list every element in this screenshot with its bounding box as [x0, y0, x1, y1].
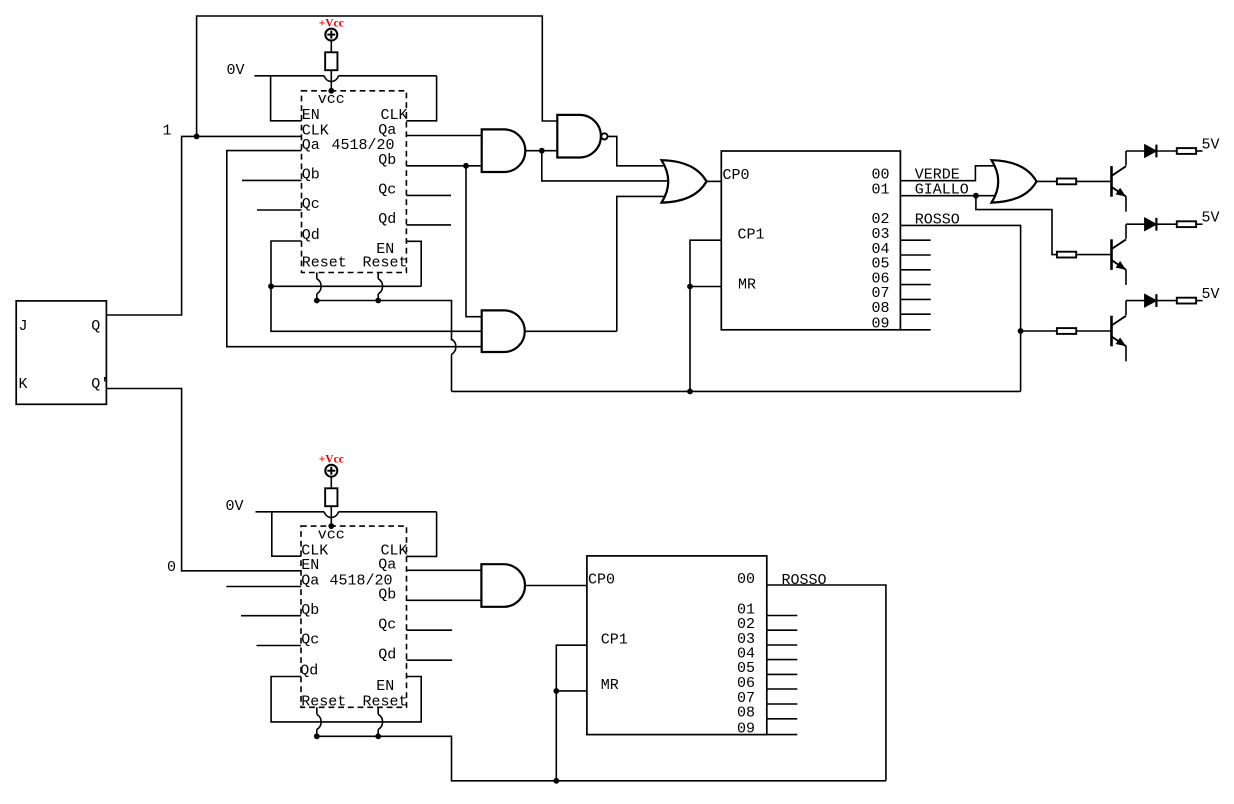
pin label 06 of U3 — [872, 270, 890, 287]
wire U2.Qa right to AND U6 — [406, 135, 481, 137]
pin label Qa right of U2 — [378, 122, 396, 139]
pin label Qb left of U4 — [301, 602, 319, 619]
pin label Reset Reset of U2 — [302, 255, 408, 272]
junction dot U2.Qb net — [463, 163, 469, 169]
net label 5V Q1 — [1202, 137, 1220, 154]
svg-text:CP0: CP0 — [723, 167, 750, 184]
counter U2 4518/20 dashed box — [302, 91, 407, 273]
stub U2.Qb left — [242, 179, 302, 181]
pin label 09 of U3 — [872, 316, 890, 333]
pin label 07 of U3 — [872, 285, 890, 302]
wire U4.Qb right to AND U11 — [407, 599, 482, 601]
svg-text:Qd: Qd — [300, 663, 318, 680]
wire U10 output to R2 — [1037, 180, 1057, 182]
junction dot Reset1 U2 — [314, 298, 320, 304]
resistor R2 base — [1057, 179, 1076, 185]
wire CP1 and MR of U3 — [690, 240, 721, 391]
pin label EN left of U4 — [301, 557, 319, 574]
svg-text:Q: Q — [91, 318, 100, 335]
svg-text:Reset: Reset — [363, 694, 408, 711]
wire U1.Q to node 1 and CLK of U2 — [106, 136, 301, 315]
pin label 08 of U5 — [737, 705, 755, 722]
svg-text:08: 08 — [872, 300, 890, 317]
junction dot MR rail — [687, 389, 693, 395]
svg-text:ROSSO: ROSSO — [782, 572, 827, 589]
svg-text:Qb: Qb — [378, 152, 396, 169]
pin label Qd left of U2 — [302, 227, 320, 244]
pin label 08 of U3 — [872, 300, 890, 317]
pin label vcc of U2 — [318, 91, 345, 108]
stub output 05 of U5 — [767, 673, 798, 675]
pin label 00 of U5 — [737, 571, 755, 588]
stub output 04 of U5 — [767, 659, 798, 661]
label 0V lower — [226, 498, 244, 515]
pin label Qb left of U2 — [302, 167, 320, 184]
wire D3 to R7 — [1156, 300, 1176, 302]
flip-flop U1 JK box — [16, 301, 106, 404]
power +Vcc symbol lower — [319, 454, 344, 477]
net label 1 — [162, 123, 171, 140]
stub output 08 of U3 — [900, 313, 930, 315]
svg-text:Qa: Qa — [301, 573, 319, 590]
wire 0V rail upper with hop — [254, 76, 436, 82]
pin label EN right of U4 — [376, 678, 394, 695]
stub output 06 of U3 — [900, 284, 930, 286]
junction dot vcc pin U2 — [328, 88, 334, 94]
svg-text:1: 1 — [162, 123, 171, 140]
svg-text:vcc: vcc — [318, 91, 345, 108]
stub output 03 of U5 — [767, 644, 798, 646]
pin label CLK right of U2 — [381, 107, 408, 124]
net label 0 — [167, 559, 176, 576]
wire U8 output up to OR U9 bottom input — [525, 196, 668, 331]
svg-text:0: 0 — [167, 559, 176, 576]
wire U4 reset line to bottom rail lower — [317, 736, 886, 781]
wire D2 to R6 — [1156, 223, 1176, 225]
net label VERDE — [915, 167, 960, 184]
pin label 05 of U5 — [737, 660, 755, 677]
svg-text:vcc: vcc — [318, 527, 345, 544]
wire 0V rail lower with hop — [256, 512, 437, 518]
stub U2.Qc left — [257, 209, 302, 211]
pin label J of U1 — [19, 318, 28, 335]
wire +Vcc to resistor R1 — [330, 41, 332, 53]
resistor R1 pull-up — [325, 52, 337, 70]
junction dot U6 output — [539, 148, 545, 154]
svg-text:Reset: Reset — [302, 255, 347, 272]
pin label CP1 of U5 — [601, 631, 628, 648]
transistor Q1 NPN — [1112, 151, 1145, 212]
node 1 junction dot — [194, 134, 200, 140]
pin label Qc left of U4 — [301, 632, 319, 649]
counter U5 box — [587, 556, 767, 735]
svg-text:Qa: Qa — [378, 556, 396, 573]
stub output 06 of U5 — [767, 688, 798, 690]
svg-text:MR: MR — [738, 276, 756, 293]
pin label EN right of U2 — [376, 241, 394, 258]
pin label CP1 of U3 — [738, 227, 765, 244]
pin label MR of U3 — [738, 276, 756, 293]
wire R6 to 5V — [1196, 223, 1202, 225]
stub output 02 of U5 — [767, 629, 798, 631]
stub U4.Qc left — [257, 645, 302, 647]
wire U2 Reset pin 2 with hop — [378, 273, 382, 301]
pin label Qa left of U4 — [301, 573, 319, 590]
wire U9 output to CP0 of U3 — [707, 180, 722, 182]
diode D2 LED — [1145, 218, 1157, 231]
diode D1 LED — [1145, 145, 1157, 158]
net label 5V Q2 — [1202, 210, 1220, 227]
pin label Qb right of U4 — [378, 586, 396, 603]
wire R7 to 5V — [1196, 300, 1202, 302]
wire bottom rail upper section — [452, 390, 1021, 392]
svg-text:Q': Q' — [91, 376, 109, 393]
pin label Qd right of U4 — [378, 646, 396, 663]
svg-text:Qb: Qb — [378, 586, 396, 603]
junction dot GIALLO — [973, 193, 979, 199]
pin label CLK left of U2 — [302, 123, 329, 140]
svg-text:Qb: Qb — [301, 602, 319, 619]
svg-text:Qa: Qa — [302, 137, 320, 154]
wire U2.Qa left down to AND U8 input — [227, 151, 482, 347]
wire 00 ROSSO of U5 to bottom rail — [767, 585, 886, 781]
svg-text:CP1: CP1 — [601, 631, 628, 648]
svg-text:Qb: Qb — [302, 167, 320, 184]
svg-text:0V: 0V — [226, 498, 244, 515]
pin label Qb right of U2 — [378, 152, 396, 169]
pin label vcc of U4 — [318, 527, 345, 544]
svg-text:MR: MR — [601, 677, 619, 694]
stub U2.Qc right — [406, 194, 451, 196]
stub U4.Qb left — [241, 615, 301, 617]
pin label 09 of U5 — [737, 720, 755, 737]
svg-text:Qc: Qc — [378, 182, 396, 199]
stub U4.Qc right — [407, 629, 453, 631]
junction dot MR U5 — [553, 688, 559, 694]
stub output 07 of U3 — [900, 298, 930, 300]
junction dot MR U3 — [687, 284, 693, 290]
stub output 04 of U3 — [900, 254, 930, 256]
pin label Q' of U1 — [91, 376, 109, 393]
wire R8 to vcc pin of U4 — [330, 506, 332, 526]
or-gate U9 — [662, 160, 707, 202]
wire 01 GIALLO to OR U10 and Q2 — [900, 196, 1057, 255]
power +Vcc symbol upper — [319, 18, 344, 41]
pin label CP0 of U3 — [723, 167, 750, 184]
wire U2.Qb right to AND U6 and U8 — [406, 166, 481, 317]
wire 0V to CLK right of U2 — [406, 76, 436, 121]
resistor R6 collector — [1177, 221, 1196, 227]
net label ROSSO — [915, 211, 960, 228]
junction dot bottom rail lower — [553, 778, 559, 784]
resistor R3 base — [1057, 252, 1076, 258]
pin label 03 of U3 — [872, 226, 890, 243]
svg-text:Qd: Qd — [378, 646, 396, 663]
pin label Qc left of U2 — [302, 196, 320, 213]
stub U2.Qd right — [406, 224, 451, 226]
stub output 05 of U3 — [900, 269, 930, 271]
svg-text:ROSSO: ROSSO — [915, 211, 960, 228]
nand-gate U7 — [557, 115, 607, 158]
pin label 01 of U3 — [872, 182, 890, 199]
pin label 05 of U3 — [872, 256, 890, 273]
wire R2 to Q1 base — [1076, 180, 1111, 182]
wire U6 output to U7 and OR U9 — [525, 151, 669, 181]
pin label 04 of U5 — [737, 645, 755, 662]
wire 00 VERDE to OR U10 — [900, 166, 998, 181]
wire D1 to R5 — [1156, 150, 1176, 152]
resistor R5 collector — [1177, 148, 1196, 154]
svg-text:5V: 5V — [1202, 210, 1220, 227]
pin label 01 of U5 — [737, 601, 755, 618]
svg-text:J: J — [19, 318, 28, 335]
svg-text:Qa: Qa — [378, 122, 396, 139]
wire +Vcc to resistor R8 — [330, 477, 332, 489]
svg-text:09: 09 — [872, 316, 890, 333]
transistor Q2 NPN — [1112, 224, 1145, 285]
wire U11 output to CP0 of U5 — [525, 585, 587, 587]
pin label EN left of U2 — [302, 107, 320, 124]
svg-text:Reset: Reset — [363, 255, 408, 272]
wire R5 to 5V — [1196, 150, 1202, 152]
wire U2.Qd left to EN right feedback with hops — [271, 241, 482, 331]
svg-text:5V: 5V — [1202, 137, 1220, 154]
wire 0V to EN of U2 — [271, 76, 302, 121]
pin label Qa right of U4 — [378, 556, 396, 573]
resistor R8 pull-up — [325, 488, 337, 506]
stub output 03 of U3 — [900, 239, 930, 241]
wire U2 Reset pin 1 with hop — [317, 273, 321, 301]
pin label CP0 of U5 — [588, 572, 615, 589]
pin label 03 of U5 — [737, 631, 755, 648]
pin label CLK right of U4 — [381, 542, 408, 559]
svg-text:0V: 0V — [227, 62, 245, 79]
and-gate U8 3-input — [482, 310, 525, 352]
or-gate U10 — [992, 160, 1037, 202]
wire U2 reset line to bottom rail with hop — [317, 301, 456, 392]
resistor R7 collector — [1177, 298, 1196, 304]
junction dot vcc pin U4 — [328, 523, 334, 529]
label 0V upper — [227, 62, 245, 79]
value label 4518/20 of U2 — [332, 137, 395, 154]
value label 4518/20 of U4 — [330, 573, 393, 590]
pin label 00 of U3 — [872, 167, 890, 184]
wire R1 to vcc pin of U2 — [330, 70, 332, 91]
svg-text:Qd: Qd — [302, 227, 320, 244]
wire R3 to Q2 base — [1076, 254, 1111, 256]
svg-text:08: 08 — [737, 705, 755, 722]
wire U7 output to OR U9 top input — [608, 136, 669, 165]
pin label 02 of U5 — [737, 616, 755, 633]
svg-text:5V: 5V — [1202, 286, 1220, 303]
wire U4 Reset pin 2 with hop — [378, 707, 382, 736]
stub U4.Qd right — [407, 659, 453, 661]
svg-text:Qc: Qc — [378, 616, 396, 633]
counter U4 4518/20 dashed box — [301, 526, 407, 707]
stub U4.Qa left — [226, 586, 301, 588]
wire R4 to Q3 base — [1076, 330, 1111, 332]
pin label 02 of U3 — [872, 211, 890, 228]
junction dot Reset1 U4 — [314, 733, 320, 739]
svg-text:09: 09 — [737, 720, 755, 737]
stub output 09 of U3 — [900, 329, 930, 331]
diode D3 LED — [1145, 294, 1157, 307]
pin label Q of U1 — [91, 318, 100, 335]
junction dot Reset2 U2 — [375, 298, 381, 304]
wire U4.Qa right to AND U11 — [407, 569, 482, 571]
pin label Qa left of U2 — [302, 137, 320, 154]
svg-text:00: 00 — [737, 571, 755, 588]
net label 5V Q3 — [1202, 286, 1220, 303]
pin label K of U1 — [19, 376, 28, 393]
pin label Qd right of U2 — [378, 211, 396, 228]
wire 0V to CLK left of U4 — [272, 512, 301, 556]
pin label Qc right of U4 — [378, 616, 396, 633]
stub output 09 of U5 — [767, 734, 798, 736]
wire U1.Q' to EN of U4 — [106, 389, 301, 571]
svg-text:CP1: CP1 — [738, 227, 765, 244]
and-gate U11 — [481, 564, 525, 607]
pin label Qc right of U2 — [378, 182, 396, 199]
svg-text:CP0: CP0 — [588, 572, 615, 589]
svg-text:EN: EN — [376, 678, 394, 695]
resistor R4 base — [1057, 328, 1076, 334]
wire U4 Reset pin 1 with hop — [317, 707, 321, 736]
stub output 07 of U5 — [767, 703, 798, 705]
svg-text:Reset: Reset — [301, 694, 346, 711]
pin label 04 of U3 — [872, 241, 890, 258]
junction dot Reset2 U4 — [375, 733, 381, 739]
svg-text:Qc: Qc — [302, 196, 320, 213]
svg-text:EN: EN — [301, 557, 319, 574]
stub output 08 of U5 — [767, 718, 798, 720]
pin label Reset Reset of U4 — [301, 694, 407, 711]
svg-text:K: K — [19, 376, 28, 393]
junction dot ROSSO branch — [1018, 328, 1024, 334]
svg-text:Qd: Qd — [378, 211, 396, 228]
svg-text:Qc: Qc — [301, 632, 319, 649]
junction dot U2 Qd feedback — [268, 283, 274, 289]
wire CP1 and MR of U5 — [556, 645, 587, 781]
svg-text:GIALLO: GIALLO — [915, 182, 969, 199]
transistor Q3 NPN — [1112, 301, 1145, 362]
stub output 01 of U5 — [767, 615, 798, 617]
pin label 06 of U5 — [737, 675, 755, 692]
wire U4.Qd left to EN right feedback — [271, 677, 421, 722]
pin label 07 of U5 — [737, 690, 755, 707]
net label GIALLO — [915, 182, 969, 199]
pin label Qd left of U4 — [300, 663, 318, 680]
counter U3 box — [721, 151, 900, 330]
wire 0V to CLK right of U4 — [407, 512, 437, 557]
wire 02 ROSSO to Q3 and MR rail — [900, 225, 1057, 391]
and-gate U6 — [482, 129, 526, 172]
wire top rail from node 1 to NAND U7 input — [197, 16, 558, 136]
pin label CLK left of U4 — [301, 542, 328, 559]
net label ROSSO lower — [782, 572, 827, 589]
pin label MR of U5 — [601, 677, 619, 694]
svg-text:01: 01 — [872, 182, 890, 199]
